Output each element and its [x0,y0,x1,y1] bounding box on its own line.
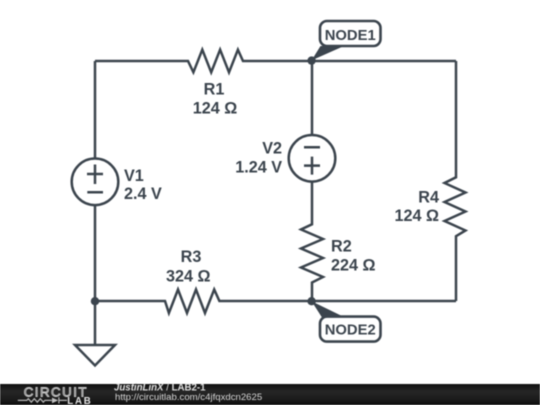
svg-text:V1: V1 [124,167,144,185]
svg-text:1.24 V: 1.24 V [235,159,282,177]
svg-text:124 Ω: 124 Ω [395,207,440,225]
svg-text:R1: R1 [204,80,225,98]
svg-text:R4: R4 [418,188,439,206]
svg-text:224 Ω: 224 Ω [331,256,376,274]
svg-text:http://circuitlab.com/c4jfqxdc: http://circuitlab.com/c4jfqxdcn2625 [115,392,262,403]
svg-text:V2: V2 [262,140,282,158]
svg-text:R2: R2 [331,237,352,255]
svg-text:2.4 V: 2.4 V [124,185,162,203]
svg-text:R3: R3 [181,248,202,266]
svg-text:NODE2: NODE2 [325,322,376,338]
svg-text:LAB: LAB [67,396,92,405]
svg-text:324 Ω: 324 Ω [166,268,211,286]
svg-text:124 Ω: 124 Ω [193,100,238,118]
svg-text:NODE1: NODE1 [325,28,376,44]
